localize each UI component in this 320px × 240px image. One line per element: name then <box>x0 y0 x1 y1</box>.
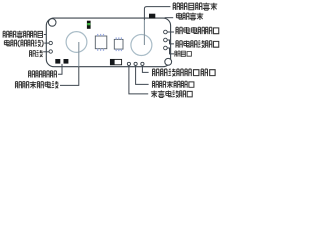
wire: gain knob leader <box>58 64 62 74</box>
label: 肌肉末端接口 (muscle end port) <box>152 81 193 88</box>
wire: bottom pad 3 leader <box>142 66 148 73</box>
gain trimmer knob black square 1 <box>55 59 60 64</box>
pad right 3 <box>164 46 168 50</box>
pad right 1 <box>164 30 168 34</box>
wire: signal pad leader <box>167 48 174 54</box>
label: 肌肉终端接口接口 (muscle terminal port) <box>153 69 216 77</box>
pad left 2 <box>49 50 52 53</box>
label: 供电地线接口 (supply ground port) <box>176 40 219 47</box>
wire: bottom pad 2 leader <box>136 66 149 85</box>
pad bottom 2 <box>134 62 137 65</box>
wire: bottom pad 1 leader <box>129 66 148 94</box>
op-amp U2 <box>114 39 123 49</box>
U2 pins top <box>116 37 122 39</box>
U2 pins bottom <box>116 49 122 51</box>
label: 调制旋钮 (gain knob) <box>29 71 57 78</box>
snap electrode left (muscle end electrode) <box>66 32 87 53</box>
pad bottom 1 <box>127 62 130 65</box>
black square 2 <box>64 59 69 64</box>
wire: left electrode leader to label <box>60 67 79 86</box>
label: 电源（切换键） (power toggle) <box>4 40 43 47</box>
U1 pins bottom <box>97 49 104 51</box>
power switch (black) on top edge <box>149 14 155 19</box>
pad left 1 <box>49 41 52 44</box>
label: 肌肉原始信号 (muscle raw signal) <box>3 31 42 38</box>
wire: right electrode leader to label (muscle mid switch) <box>144 7 170 20</box>
wire: power switch leader dash <box>165 17 174 19</box>
op-amp U1 <box>95 36 107 49</box>
mounting hole bottom-right <box>165 58 172 65</box>
pad bottom 3 <box>141 62 144 65</box>
mounting hole top-left <box>48 19 56 27</box>
label: 供电电源接口 (supply power port) <box>176 27 219 34</box>
wire: right electrode stem (in-board light) <box>143 20 145 45</box>
label: 肌肉末端电极 (muscle end electrode) <box>15 81 58 88</box>
slide switch S1 <box>110 59 121 64</box>
wire: supply pad leader <box>167 31 174 33</box>
wire: left electrode stem (in-board light) <box>78 42 80 67</box>
label: 电源开关 (power switch) <box>176 13 203 20</box>
U1 pins top <box>97 34 104 36</box>
board outline <box>46 18 170 67</box>
wire: tick label power-toggle <box>44 42 49 44</box>
pad right 2 <box>164 38 168 42</box>
wire: tick label raw-signal <box>44 34 47 36</box>
LED component (green) <box>87 21 91 29</box>
wire: tick label ground <box>43 51 49 53</box>
wire: supply-ground pad leader <box>167 40 174 44</box>
snap electrode right (muscle mid electrode) <box>131 35 152 56</box>
label: 地线 (ground) <box>30 50 43 57</box>
label: 信号口 (signal port) <box>175 51 192 57</box>
label: 肌肉中端开关 (muscle mid switch) <box>173 3 217 11</box>
label: 参考电极借口 (reference electrode port) <box>151 90 192 97</box>
